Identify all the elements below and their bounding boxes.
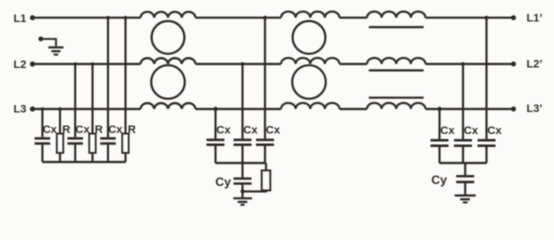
svg-text:Cx: Cx: [243, 125, 258, 137]
svg-text:Cx: Cx: [216, 125, 231, 137]
svg-text:Cx: Cx: [266, 125, 281, 137]
svg-text:Cx: Cx: [440, 125, 455, 137]
svg-text:Cx: Cx: [108, 124, 123, 136]
svg-text:L2’: L2’: [527, 59, 543, 71]
svg-text:L1’: L1’: [527, 13, 543, 25]
svg-text:R: R: [62, 124, 70, 136]
svg-text:R: R: [95, 124, 103, 136]
svg-text:Cy: Cy: [215, 175, 231, 189]
svg-text:Cx: Cx: [464, 125, 479, 137]
svg-text:R: R: [128, 124, 136, 136]
svg-text:Cx: Cx: [487, 125, 502, 137]
svg-text:Cy: Cy: [431, 173, 447, 187]
svg-text:L1: L1: [14, 13, 27, 25]
svg-text:L3: L3: [14, 103, 27, 115]
svg-text:Cx: Cx: [43, 124, 58, 136]
svg-text:L3’: L3’: [527, 103, 543, 115]
svg-text:L2: L2: [14, 59, 27, 71]
svg-text:Cx: Cx: [75, 124, 90, 136]
